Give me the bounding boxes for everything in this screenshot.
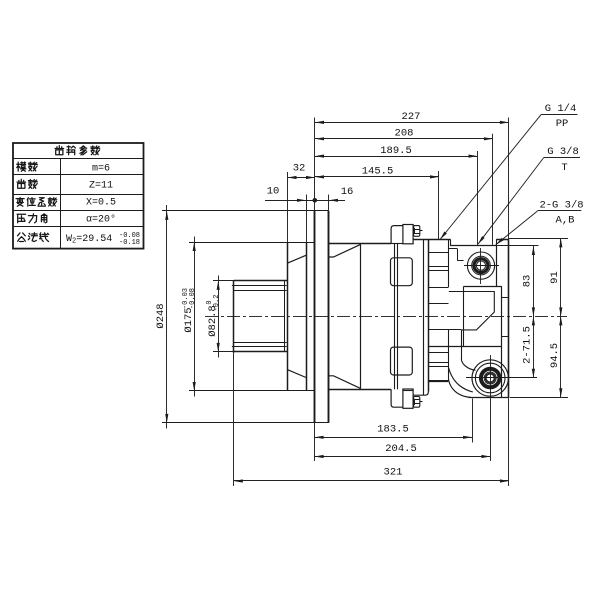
svg-text:204.5: 204.5 <box>385 443 417 455</box>
svg-text:G 1/4: G 1/4 <box>545 103 577 115</box>
svg-text:Z=11: Z=11 <box>89 180 113 191</box>
svg-text:189.5: 189.5 <box>380 145 412 157</box>
svg-text:A,B: A,B <box>556 215 575 227</box>
svg-text:-0.08: -0.08 <box>189 288 197 309</box>
svg-text:m=6: m=6 <box>92 164 110 175</box>
svg-text:83: 83 <box>521 275 533 288</box>
svg-text:Ø248: Ø248 <box>155 303 167 328</box>
svg-text:321: 321 <box>384 466 403 478</box>
svg-text:32: 32 <box>293 163 306 175</box>
svg-text:X=0.5: X=0.5 <box>86 198 116 209</box>
svg-text:183.5: 183.5 <box>377 424 409 436</box>
svg-text:145.5: 145.5 <box>362 166 394 178</box>
svg-text:2-G 3/8: 2-G 3/8 <box>539 200 583 212</box>
svg-text:PP: PP <box>556 118 569 130</box>
svg-text:16: 16 <box>341 186 354 198</box>
svg-text:227: 227 <box>402 111 421 123</box>
svg-text:10: 10 <box>267 186 280 198</box>
svg-text:T: T <box>561 162 567 174</box>
svg-text:α=20°: α=20° <box>86 213 116 225</box>
svg-text:G 3/8: G 3/8 <box>547 146 579 158</box>
svg-text:208: 208 <box>395 128 414 140</box>
svg-text:-0.18: -0.18 <box>119 239 140 247</box>
svg-text:91: 91 <box>549 271 561 284</box>
svg-text:Ø175: Ø175 <box>183 307 195 332</box>
svg-text:2-71.5: 2-71.5 <box>521 326 533 364</box>
svg-text:W2=29.54: W2=29.54 <box>66 234 112 246</box>
svg-text:94.5: 94.5 <box>549 343 561 368</box>
svg-text:-0.2: -0.2 <box>213 295 221 312</box>
